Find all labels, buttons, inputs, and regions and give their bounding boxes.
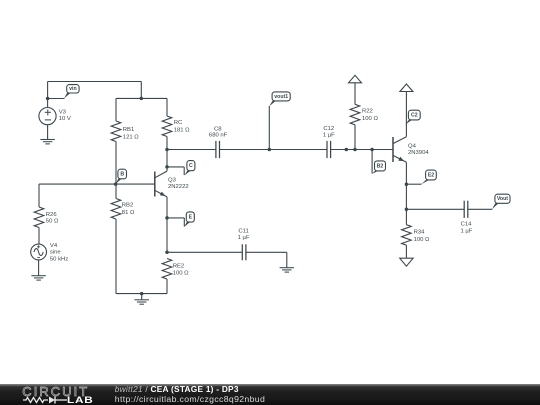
svg-text:E2: E2 xyxy=(428,172,434,178)
wire: E2 stub xyxy=(406,183,421,185)
svg-text:V3: V3 xyxy=(59,109,67,115)
svg-text:C2: C2 xyxy=(411,113,418,119)
flag Vout xyxy=(492,203,499,209)
svg-text:B: B xyxy=(120,171,124,177)
svg-text:R22: R22 xyxy=(362,109,373,115)
resistor RE2 xyxy=(162,259,172,280)
flag E2 xyxy=(421,180,429,184)
CircuitLab logo xyxy=(22,386,89,399)
node: B2 junction xyxy=(370,148,374,152)
svg-text:1 µF: 1 µF xyxy=(238,235,250,241)
svg-text:E: E xyxy=(189,214,193,220)
flag E xyxy=(184,222,190,227)
resistor RB2 xyxy=(115,184,117,198)
svg-text:vout1: vout1 xyxy=(274,94,288,100)
svg-text:2N2222: 2N2222 xyxy=(168,184,189,190)
node: E2 junction xyxy=(405,182,409,186)
svg-text:2N3904: 2N3904 xyxy=(408,150,429,156)
power flag VCC above R22 xyxy=(349,75,362,83)
svg-text:RB2: RB2 xyxy=(122,203,133,209)
wire: to C14 xyxy=(406,208,464,210)
svg-text:sine: sine xyxy=(50,250,62,256)
ground: V4 xyxy=(31,275,45,277)
wire: vout1 stem xyxy=(268,106,270,150)
wire: C flag stub xyxy=(167,166,184,168)
wire: V3 vertical xyxy=(47,82,49,108)
node: junction top rail xyxy=(140,97,144,101)
node: E flag junction xyxy=(165,216,169,220)
wire: C12 to Q4 base xyxy=(331,149,393,151)
resistor R34 xyxy=(402,225,412,246)
svg-text:RB1: RB1 xyxy=(123,127,134,133)
ground: V3 xyxy=(40,139,55,141)
power flag VEE below R34 xyxy=(400,258,413,266)
svg-text:Q3: Q3 xyxy=(168,178,177,184)
node: C11 junction xyxy=(165,251,169,255)
svg-text:V4: V4 xyxy=(50,243,58,249)
capacitor C11 xyxy=(241,244,243,260)
svg-text:10 V: 10 V xyxy=(59,116,71,122)
node: wire joint xyxy=(345,148,349,152)
wire: Q4 emitter down xyxy=(405,162,407,224)
svg-text:100 Ω: 100 Ω xyxy=(362,116,378,122)
wire: V4 bottom xyxy=(38,260,40,276)
svg-text:C: C xyxy=(189,163,193,169)
wire: upper rail RB1 to RC xyxy=(116,97,167,99)
wire: Q3 collector up xyxy=(166,150,168,172)
flag C2 xyxy=(405,120,412,125)
svg-text:181 Ω: 181 Ω xyxy=(174,127,190,133)
wire: to C11 xyxy=(167,251,242,253)
svg-text:vin: vin xyxy=(69,86,77,92)
svg-text:R26: R26 xyxy=(46,212,58,218)
svg-text:RC: RC xyxy=(174,120,183,126)
wire: Q4 collector up xyxy=(405,92,407,137)
svg-text:100 Ω: 100 Ω xyxy=(414,237,430,243)
svg-text:100 Ω: 100 Ω xyxy=(173,270,189,276)
svg-text:C11: C11 xyxy=(238,229,248,235)
ground: bottom rail xyxy=(134,299,149,301)
wire: C11 to ground xyxy=(246,251,287,253)
capacitor C8 xyxy=(215,141,217,158)
flag B2 xyxy=(371,150,373,174)
capacitor C14 xyxy=(463,201,465,218)
flag vout1 xyxy=(269,101,275,106)
wire: base rail (node B) xyxy=(39,183,155,185)
transistor Q4 xyxy=(392,137,394,162)
wire: V3 top to rail corner xyxy=(48,81,142,83)
resistor R22 xyxy=(354,83,356,105)
wire: C14 to Vout xyxy=(468,208,493,210)
wire: bottom rail xyxy=(116,293,167,295)
svg-text:RE2: RE2 xyxy=(173,263,184,269)
node: RC bottom junction xyxy=(165,148,169,152)
node: vout1 junction xyxy=(268,148,272,152)
svg-text:680 nF: 680 nF xyxy=(209,132,228,138)
resistor RB1 xyxy=(115,98,117,121)
svg-text:50 kHz: 50 kHz xyxy=(50,256,68,262)
flag vin xyxy=(64,93,70,99)
wire: Q3 emitter down xyxy=(166,197,168,252)
voltage source V3 xyxy=(39,108,56,125)
node: C flag junction xyxy=(165,165,169,169)
voltage source V4 sine xyxy=(31,244,47,260)
svg-text:121 Ω: 121 Ω xyxy=(123,134,139,140)
node: R22 junction xyxy=(353,148,357,152)
svg-text:1 µF: 1 µF xyxy=(323,133,335,139)
transistor Q3 xyxy=(154,172,156,197)
wire: E flag stub xyxy=(167,217,184,219)
resistor RC xyxy=(166,98,168,116)
node: ground junction xyxy=(140,292,144,296)
svg-text:C14: C14 xyxy=(461,222,473,228)
svg-text:Vout: Vout xyxy=(497,196,508,202)
svg-text:C12: C12 xyxy=(323,126,334,132)
flag C xyxy=(184,171,190,176)
svg-text:81 Ω: 81 Ω xyxy=(122,210,135,216)
svg-text:R34: R34 xyxy=(414,229,426,235)
wire: corner down to upper rail xyxy=(140,82,142,99)
wire: vin stub xyxy=(48,98,65,100)
node: vin node xyxy=(46,97,50,101)
ground: C11 xyxy=(280,267,295,269)
svg-text:1 µF: 1 µF xyxy=(460,229,472,235)
wire: C8 to C12 xyxy=(220,149,328,151)
wire: V3 bottom xyxy=(47,125,49,140)
svg-text:50 Ω: 50 Ω xyxy=(46,218,59,224)
svg-text:B2: B2 xyxy=(377,163,384,169)
wire: ground stub xyxy=(141,294,143,300)
svg-text:Q4: Q4 xyxy=(408,143,417,149)
capacitor C12 xyxy=(326,141,328,158)
resistor R26 xyxy=(38,184,40,207)
node: C14 junction xyxy=(405,208,409,212)
wire: mid rail to C8 xyxy=(167,149,216,151)
node: node B xyxy=(114,182,118,186)
power flag VCC above Q4 xyxy=(400,84,413,92)
flag B xyxy=(116,179,122,184)
